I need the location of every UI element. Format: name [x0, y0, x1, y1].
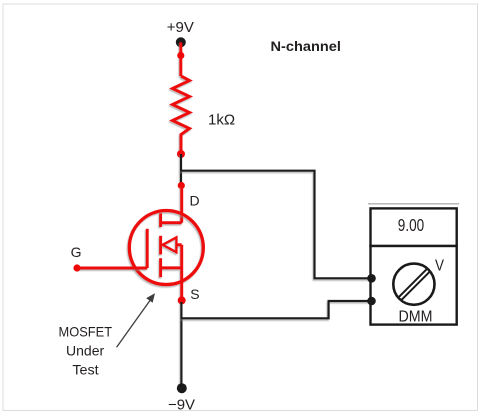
wire drain node to DMM V+ terminal [181, 171, 372, 279]
svg-text:S: S [190, 286, 199, 302]
svg-text:9.00: 9.00 [398, 215, 425, 235]
MOSFET Q1 (N-channel, under test) [129, 211, 203, 301]
svg-text:1kΩ: 1kΩ [208, 112, 235, 129]
DMM V+ terminal [367, 274, 376, 283]
-9V supply terminal [177, 383, 187, 393]
MOSFET drain connection [161, 221, 182, 224]
DMM body box [371, 246, 457, 325]
DMM outer box top edge remnant [368, 203, 459, 205]
svg-text:MOSFET: MOSFET [59, 323, 113, 339]
MOSFET gate plate [146, 229, 149, 268]
MOSFET source connection [161, 266, 182, 269]
wire source node to DMM COM terminal [181, 301, 371, 318]
svg-text:V: V [435, 258, 445, 275]
junction dot resistor top [177, 52, 184, 59]
resistor R 1kΩ [173, 76, 190, 154]
MOSFET channel segment middle [159, 236, 162, 255]
junction dot source node [178, 296, 186, 304]
svg-text:D: D [190, 192, 200, 208]
svg-text:−9V: −9V [168, 396, 195, 413]
DMM meter [367, 204, 459, 325]
wire drain node to MOSFET drain [180, 186, 183, 223]
DMM dial pointer lines [398, 269, 427, 298]
DMM COM terminal [367, 297, 376, 306]
wire +9V terminal to resistor top [179, 42, 182, 76]
+9V supply terminal [176, 37, 186, 47]
MOSFET arrow backbone [176, 243, 181, 246]
gate terminal dot [73, 264, 80, 271]
annotation arrow to MOSFET [117, 300, 151, 347]
svg-text:G: G [71, 244, 82, 260]
junction dot drain wire [178, 182, 185, 189]
gate wire G to MOSFET [77, 267, 147, 270]
wire resistor bottom to drain node [180, 154, 182, 186]
DMM display box [371, 208, 457, 246]
MOSFET body arrow (points to gate: N-channel) [163, 237, 177, 252]
MOSFET channel segment top [159, 213, 162, 227]
svg-text:Test: Test [72, 361, 98, 377]
svg-text:DMM: DMM [399, 308, 433, 325]
MOSFET source lead inside circle [180, 245, 183, 300]
junction dot resistor bottom [177, 150, 185, 158]
svg-text:N-channel: N-channel [271, 38, 341, 54]
DMM dial knob [393, 264, 434, 305]
MOSFET body circle [129, 211, 203, 285]
MOSFET channel segment bottom [159, 258, 162, 277]
wire source node to -9V terminal [180, 302, 182, 388]
svg-text:+9V: +9V [167, 19, 194, 36]
svg-text:Under: Under [66, 342, 104, 358]
